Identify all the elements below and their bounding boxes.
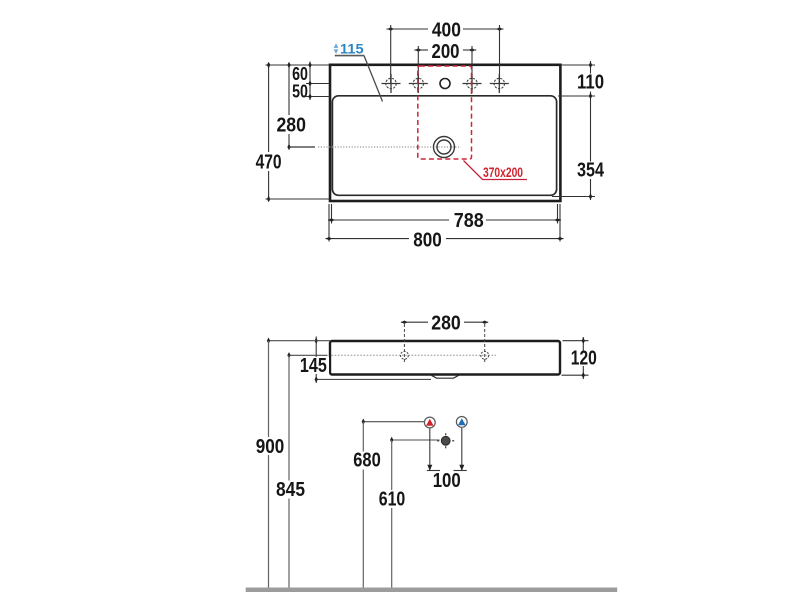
right extension line at sink top edge	[561, 64, 595, 66]
svg-text:100: 100	[433, 470, 461, 492]
svg-text:354: 354	[577, 160, 605, 182]
right extension line at inner bowl top	[558, 95, 595, 97]
right extension line at inner bowl bottom	[552, 196, 595, 198]
svg-text:115: 115	[340, 42, 364, 57]
faucet hole 2 (crosshair)	[409, 74, 428, 93]
faucet centerline (front, dotted)	[332, 354, 497, 356]
label 370x200 (red)	[483, 165, 523, 180]
dim 110 / 354 vertical line (right)	[577, 61, 605, 200]
faucet hole 3 (crosshair)	[463, 74, 482, 93]
bottom-left extension line (plan)	[266, 198, 330, 200]
floor line	[246, 588, 618, 593]
dim 400 (top faucet holes)	[387, 19, 504, 83]
center hole (plain circle)	[440, 79, 450, 89]
leader line for 370x200 label (red)	[464, 161, 528, 180]
waste outlet symbol (dark circle)	[437, 433, 454, 448]
drain boss under front view	[431, 375, 460, 378]
sink body (front view)	[330, 341, 560, 375]
svg-text:610: 610	[379, 489, 406, 511]
dim 145 (front height to drain)	[298, 337, 431, 384]
svg-text:50: 50	[292, 82, 308, 102]
left extension line at sink top edge	[266, 64, 330, 66]
centerline through drain (dotted)	[318, 146, 460, 148]
extension line at faucet centerline (left)	[306, 83, 330, 85]
siphon clearance area 370x200 (red dashed)	[418, 66, 472, 159]
dim 800	[326, 229, 564, 251]
dim 60 / 50 vertical line	[292, 62, 312, 102]
svg-text:800: 800	[413, 229, 442, 251]
sink outer body (plan)	[330, 65, 560, 201]
dim 120 (front overall height)	[562, 337, 597, 379]
dim 788	[328, 210, 561, 232]
front faucet hole left (dashed crosshair)	[401, 324, 409, 364]
faucet hole 1 (crosshair)	[382, 74, 401, 93]
dim 100 (supply spacing)	[427, 428, 467, 492]
svg-text:400: 400	[432, 19, 461, 41]
dim 280 (front faucet spacing)	[401, 312, 488, 334]
svg-text:280: 280	[276, 115, 306, 137]
extension lines below sink for 788/800	[329, 204, 560, 242]
extension line at inner bowl top edge (left)	[306, 96, 330, 98]
svg-text:120: 120	[571, 348, 597, 370]
svg-text:110: 110	[577, 72, 604, 94]
dim 845 (faucet line to floor)	[276, 352, 328, 587]
svg-text:200: 200	[432, 41, 460, 63]
svg-text:900: 900	[256, 436, 285, 458]
cold water supply symbol (blue triangle)	[456, 417, 467, 428]
faucet hole 4 (crosshair)	[490, 74, 509, 93]
svg-text:788: 788	[454, 210, 484, 232]
label 115 (blue) with height icon	[334, 42, 364, 57]
dim 610 (drain height)	[379, 437, 440, 588]
dim 680 (hot/cold supply height)	[353, 419, 424, 588]
svg-text:145: 145	[300, 355, 327, 377]
hot water supply symbol (red triangle)	[424, 417, 435, 428]
front faucet hole right (dashed crosshair)	[481, 324, 489, 364]
dim 900 (top edge to floor)	[256, 338, 331, 588]
svg-text:845: 845	[276, 479, 305, 501]
dim 470 (plan overall depth)	[256, 62, 282, 202]
svg-text:280: 280	[431, 312, 461, 334]
dim 200 (inner faucet holes)	[414, 41, 476, 83]
dim 280 (plan, top to drain center)	[276, 62, 315, 150]
drain hole (plan, double circle)	[434, 137, 455, 158]
svg-text:680: 680	[353, 450, 381, 472]
svg-text:470: 470	[256, 152, 282, 174]
leader line under 115 label into basin	[335, 56, 383, 102]
svg-text:370x200: 370x200	[483, 165, 523, 180]
basin inner bowl (plan)	[332, 96, 556, 196]
